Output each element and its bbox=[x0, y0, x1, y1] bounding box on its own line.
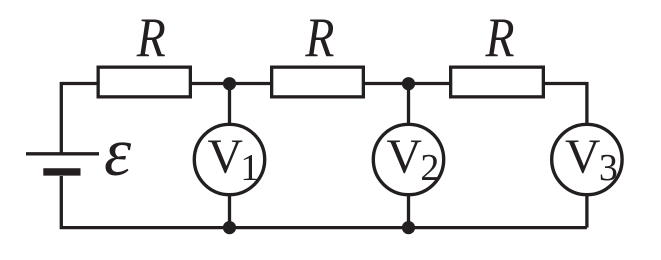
svg-text:ε: ε bbox=[104, 114, 132, 190]
resistor R1 bbox=[98, 67, 190, 97]
voltmeter V1 circle bbox=[194, 124, 264, 194]
wire node1 stub down to V1 bbox=[228, 84, 231, 125]
battery EMF: short thick plate bbox=[43, 168, 80, 175]
wire R1 to R2 bbox=[190, 82, 271, 85]
wire bottom rail bbox=[61, 176, 587, 228]
node D: junction dot bottom 2 bbox=[402, 221, 415, 234]
node C: junction dot bottom 1 bbox=[223, 221, 236, 234]
wire V1 bottom stub bbox=[228, 195, 231, 228]
voltmeter V2 circle bbox=[373, 124, 443, 194]
battery EMF: long thin plate bbox=[26, 152, 99, 155]
wire R3 to right corner, down to V3 bbox=[543, 84, 587, 125]
wire: left vertical + top horizontal to R1 bbox=[61, 84, 96, 156]
svg-text:R: R bbox=[305, 7, 335, 69]
resistor R2 bbox=[272, 67, 364, 97]
resistor R3 bbox=[451, 67, 544, 97]
wire node2 stub down to V2 bbox=[407, 84, 410, 125]
wire V2 bottom stub bbox=[407, 195, 410, 228]
node A: junction dot top 1 bbox=[223, 77, 236, 90]
wire R2 to R3 bbox=[363, 82, 450, 85]
voltmeter V3 circle bbox=[552, 124, 622, 194]
node B: junction dot top 2 bbox=[402, 77, 415, 90]
wire V3 bottom stub bbox=[585, 195, 588, 228]
svg-text:R: R bbox=[485, 7, 515, 69]
svg-text:R: R bbox=[136, 7, 166, 69]
